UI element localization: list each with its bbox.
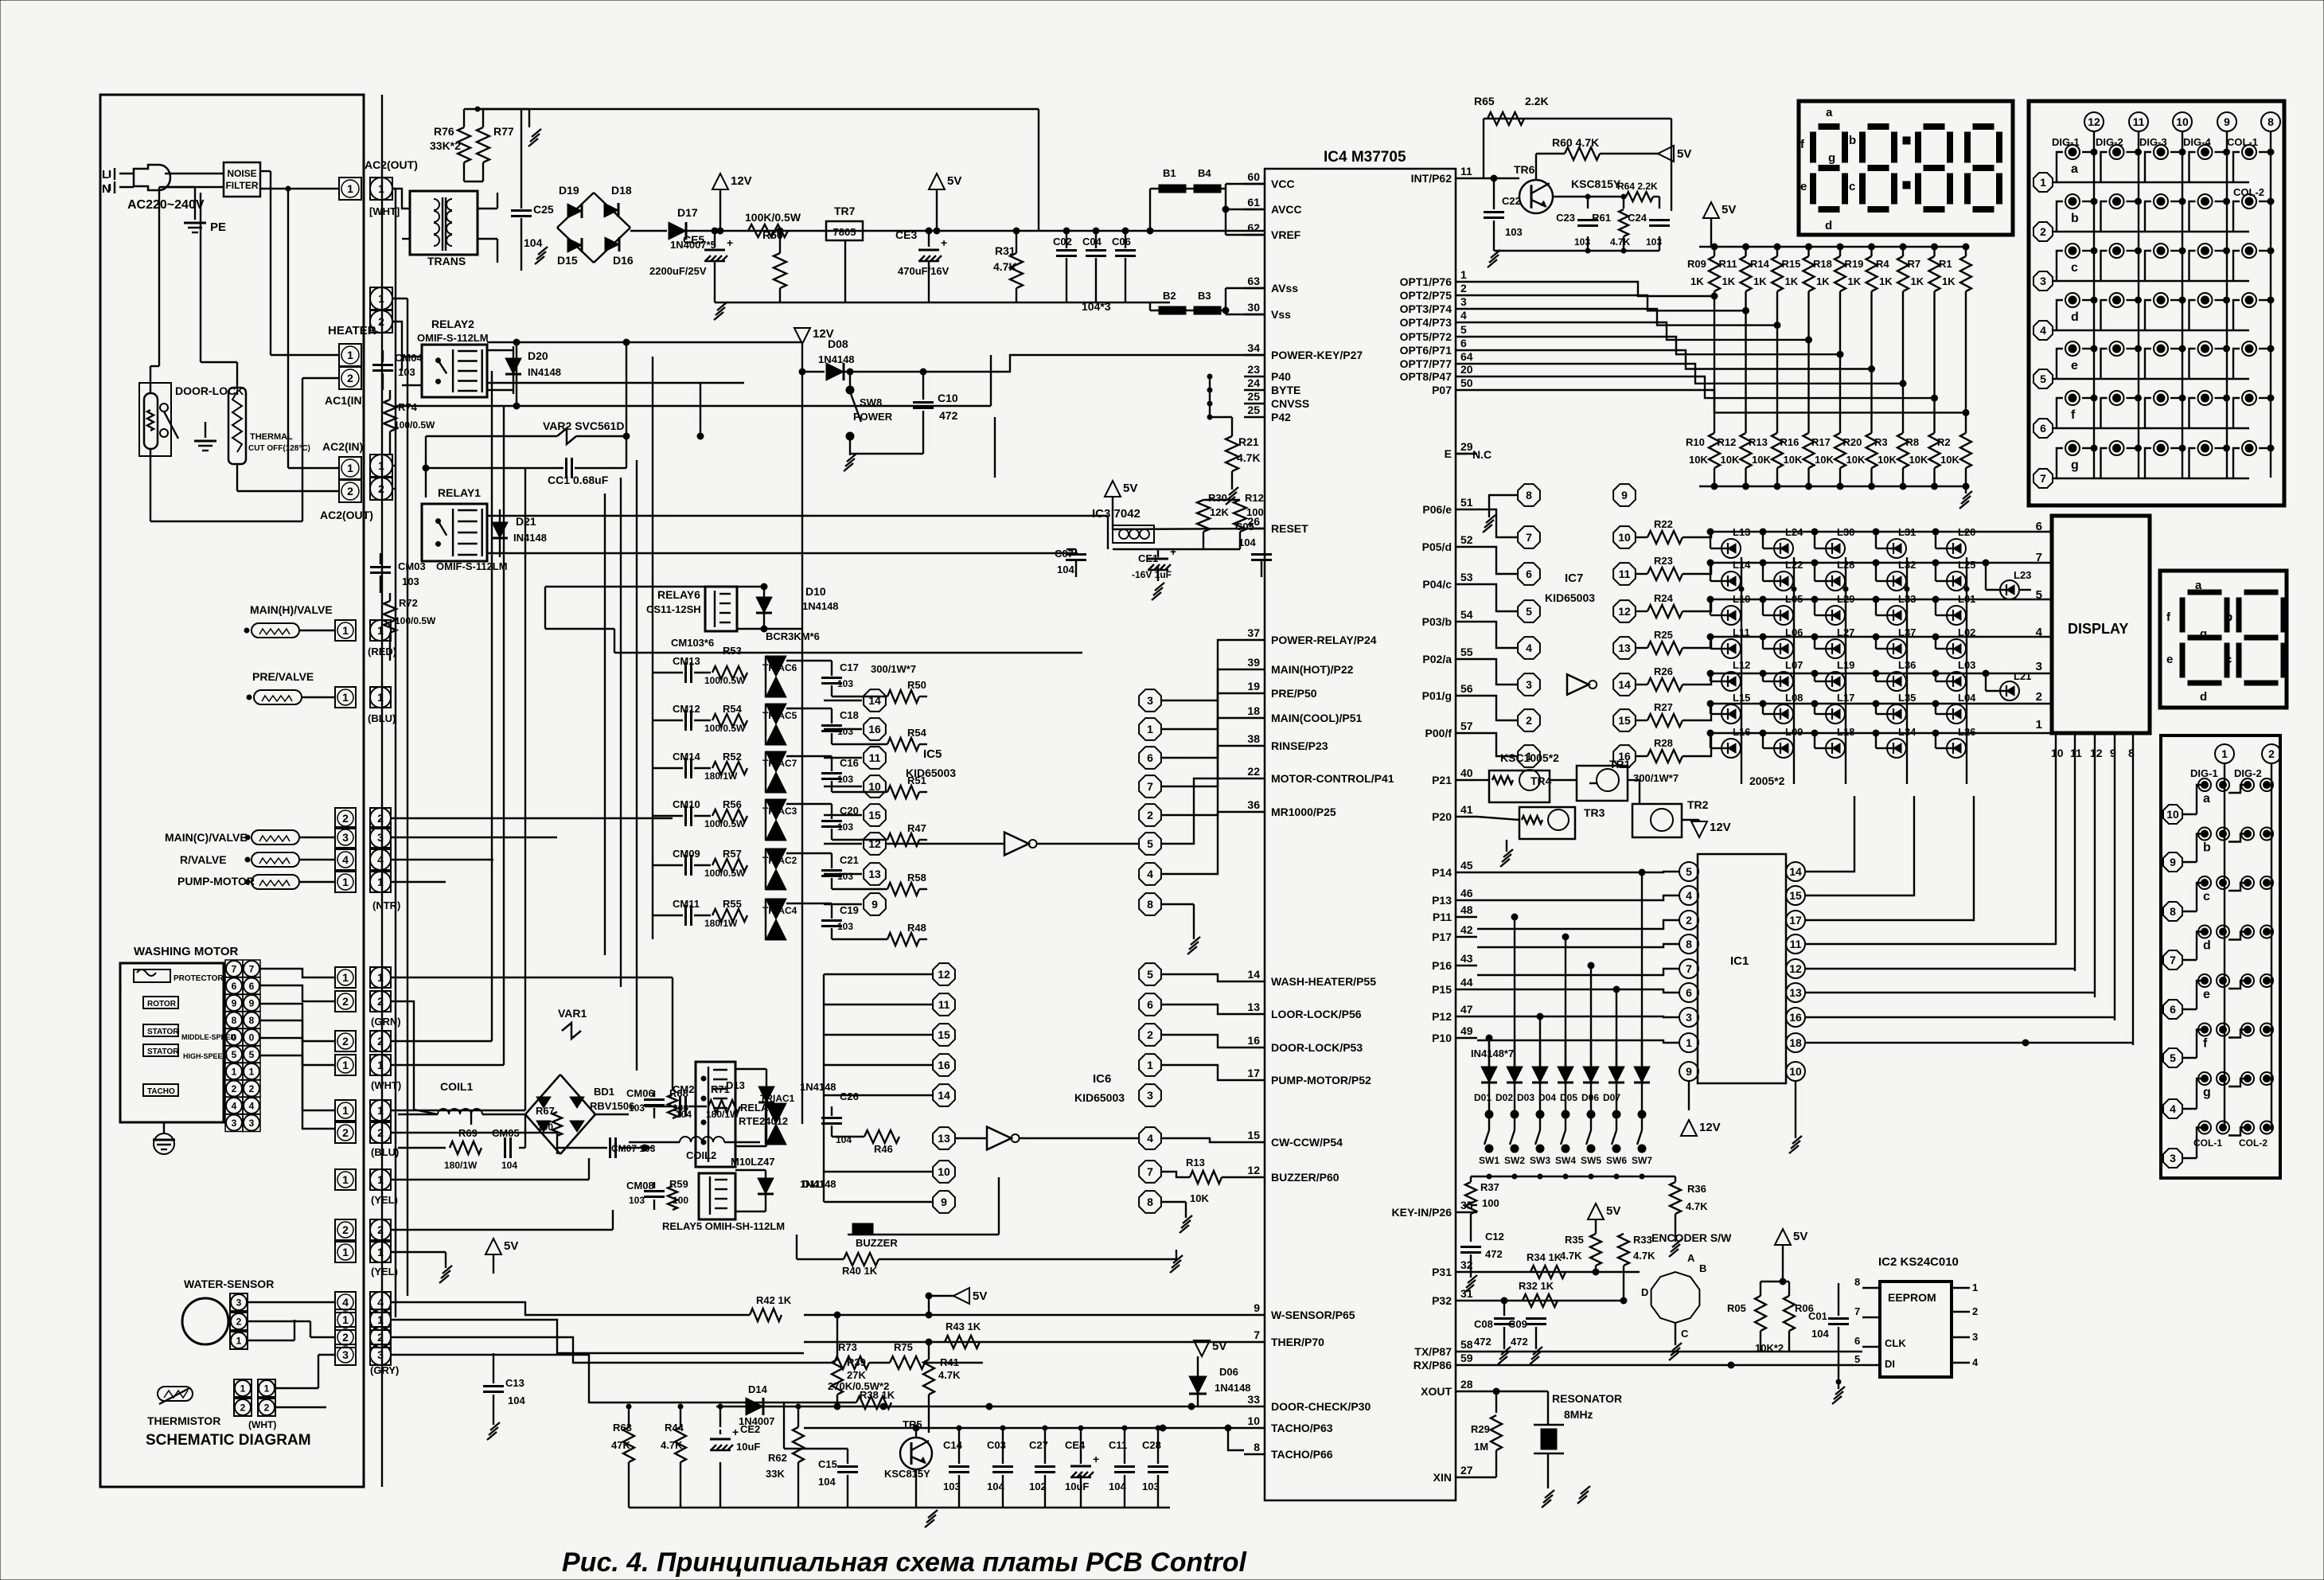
svg-text:2: 2 bbox=[342, 1126, 349, 1139]
svg-text:6: 6 bbox=[1460, 337, 1467, 349]
svg-text:R7: R7 bbox=[1908, 258, 1921, 270]
svg-text:15: 15 bbox=[1247, 1129, 1260, 1141]
svg-text:(GRN): (GRN) bbox=[371, 1016, 401, 1028]
svg-text:CE4: CE4 bbox=[1065, 1439, 1086, 1451]
svg-text:P42: P42 bbox=[1271, 411, 1291, 423]
svg-text:16: 16 bbox=[868, 723, 881, 735]
svg-text:100: 100 bbox=[1246, 506, 1264, 518]
svg-text:DOOR-LOCK/P53: DOOR-LOCK/P53 bbox=[1271, 1041, 1363, 1054]
svg-text:R38 1K: R38 1K bbox=[860, 1389, 895, 1401]
svg-text:D16: D16 bbox=[613, 254, 634, 267]
svg-text:11: 11 bbox=[938, 998, 950, 1011]
svg-text:472: 472 bbox=[939, 409, 958, 422]
svg-text:12: 12 bbox=[868, 837, 881, 850]
svg-text:4: 4 bbox=[2040, 324, 2046, 337]
svg-text:N.C: N.C bbox=[1472, 448, 1491, 461]
svg-text:43: 43 bbox=[1460, 952, 1473, 965]
svg-text:63: 63 bbox=[1247, 275, 1260, 287]
svg-text:C08: C08 bbox=[1474, 1318, 1493, 1330]
svg-text:P11: P11 bbox=[1433, 911, 1452, 923]
svg-text:2: 2 bbox=[1972, 1305, 1978, 1317]
svg-text:R3: R3 bbox=[1874, 436, 1888, 448]
svg-text:STATOR: STATOR bbox=[147, 1047, 179, 1056]
svg-text:AC2(IN): AC2(IN) bbox=[322, 440, 363, 453]
svg-text:4: 4 bbox=[249, 1100, 255, 1111]
svg-text:D06: D06 bbox=[1219, 1366, 1238, 1378]
svg-text:WASH-HEATER/P55: WASH-HEATER/P55 bbox=[1271, 975, 1376, 988]
svg-text:MAIN(COOL)/P51: MAIN(COOL)/P51 bbox=[1271, 712, 1363, 724]
svg-text:P15: P15 bbox=[1432, 983, 1452, 996]
svg-text:7: 7 bbox=[249, 963, 255, 974]
svg-text:DOOR-LOCK: DOOR-LOCK bbox=[175, 384, 244, 397]
svg-text:C04: C04 bbox=[1082, 236, 1102, 248]
svg-text:15: 15 bbox=[938, 1028, 950, 1041]
svg-text:62: 62 bbox=[1247, 221, 1260, 234]
svg-text:CE5: CE5 bbox=[683, 233, 704, 246]
svg-text:3: 3 bbox=[1972, 1331, 1978, 1343]
svg-text:57: 57 bbox=[1460, 720, 1473, 732]
svg-text:9: 9 bbox=[2170, 856, 2176, 868]
svg-text:IC1: IC1 bbox=[1730, 954, 1749, 968]
svg-text:L30: L30 bbox=[1837, 526, 1854, 538]
svg-text:11: 11 bbox=[1790, 938, 1802, 950]
svg-text:(WHT): (WHT) bbox=[248, 1419, 276, 1430]
svg-text:104: 104 bbox=[987, 1481, 1004, 1492]
svg-text:103: 103 bbox=[837, 678, 853, 689]
svg-text:1K: 1K bbox=[1942, 275, 1956, 287]
svg-text:8: 8 bbox=[2170, 905, 2176, 918]
svg-text:c: c bbox=[2203, 890, 2210, 903]
svg-text:OPT6/P71: OPT6/P71 bbox=[1400, 344, 1452, 357]
svg-text:ROTOR: ROTOR bbox=[147, 1000, 177, 1008]
svg-text:13: 13 bbox=[868, 868, 881, 880]
svg-text:BUZZER: BUZZER bbox=[856, 1237, 898, 1249]
svg-text:C: C bbox=[1681, 1328, 1689, 1340]
svg-text:D13: D13 bbox=[726, 1079, 745, 1091]
svg-text:46: 46 bbox=[1460, 887, 1473, 899]
svg-text:R60 4.7K: R60 4.7K bbox=[1552, 136, 1599, 149]
svg-text:5: 5 bbox=[249, 1049, 255, 1060]
svg-text:CLK: CLK bbox=[1885, 1337, 1906, 1349]
svg-text:W-SENSOR/P65: W-SENSOR/P65 bbox=[1271, 1309, 1355, 1321]
svg-text:1N4148: 1N4148 bbox=[800, 1178, 836, 1190]
svg-text:C12: C12 bbox=[1485, 1231, 1504, 1243]
svg-text:KSC1005*2: KSC1005*2 bbox=[1500, 751, 1559, 764]
svg-text:1: 1 bbox=[378, 459, 384, 472]
svg-text:R46: R46 bbox=[874, 1143, 893, 1155]
svg-text:R21: R21 bbox=[1238, 435, 1259, 448]
svg-text:CM08: CM08 bbox=[626, 1180, 654, 1192]
svg-text:6: 6 bbox=[1526, 568, 1532, 580]
svg-text:1: 1 bbox=[377, 1246, 384, 1258]
svg-text:472: 472 bbox=[1511, 1336, 1528, 1348]
svg-text:R14: R14 bbox=[1750, 258, 1770, 270]
svg-text:10K: 10K bbox=[1846, 454, 1866, 466]
svg-text:C28: C28 bbox=[1142, 1439, 1161, 1451]
svg-text:8: 8 bbox=[1147, 1196, 1153, 1208]
svg-text:P31: P31 bbox=[1432, 1266, 1452, 1278]
svg-text:14: 14 bbox=[938, 1089, 950, 1102]
svg-text:VAR1: VAR1 bbox=[558, 1007, 587, 1020]
svg-text:33K: 33K bbox=[766, 1468, 785, 1480]
svg-text:a: a bbox=[2071, 162, 2078, 176]
svg-text:14: 14 bbox=[868, 694, 881, 707]
svg-text:P40: P40 bbox=[1271, 370, 1291, 383]
svg-text:c: c bbox=[2225, 653, 2232, 666]
svg-text:PRE/P50: PRE/P50 bbox=[1271, 687, 1317, 700]
svg-text:5: 5 bbox=[1147, 837, 1153, 850]
svg-text:IC3 7042: IC3 7042 bbox=[1092, 507, 1141, 521]
svg-text:DOOR-CHECK/P30: DOOR-CHECK/P30 bbox=[1271, 1400, 1371, 1413]
svg-text:C03: C03 bbox=[987, 1439, 1006, 1451]
svg-text:(BLU): (BLU) bbox=[371, 1146, 399, 1158]
svg-text:12: 12 bbox=[1247, 1164, 1260, 1176]
svg-text:3: 3 bbox=[342, 1348, 349, 1361]
svg-text:8: 8 bbox=[1686, 938, 1692, 950]
svg-text:14: 14 bbox=[1247, 968, 1260, 981]
svg-text:9: 9 bbox=[1254, 1301, 1260, 1314]
svg-text:2: 2 bbox=[1686, 914, 1692, 927]
svg-text:(WHT): (WHT) bbox=[371, 1079, 401, 1091]
svg-text:b: b bbox=[1849, 134, 1856, 147]
svg-text:CE3: CE3 bbox=[895, 228, 917, 241]
svg-text:2: 2 bbox=[1147, 1028, 1153, 1041]
svg-text:P02/a: P02/a bbox=[1422, 653, 1452, 665]
svg-text:33: 33 bbox=[1247, 1393, 1260, 1406]
svg-text:47K: 47K bbox=[611, 1439, 630, 1451]
svg-text:3: 3 bbox=[2036, 660, 2042, 673]
svg-text:OPT4/P73: OPT4/P73 bbox=[1400, 316, 1452, 329]
svg-text:THERMISTOR: THERMISTOR bbox=[147, 1414, 220, 1427]
svg-text:HEATER: HEATER bbox=[328, 324, 376, 337]
svg-text:b: b bbox=[2225, 611, 2232, 624]
svg-text:g: g bbox=[2071, 458, 2079, 472]
svg-text:R47: R47 bbox=[907, 822, 926, 834]
svg-text:12: 12 bbox=[1618, 605, 1631, 618]
svg-text:39: 39 bbox=[1247, 656, 1260, 669]
svg-text:TR3: TR3 bbox=[1584, 806, 1605, 819]
svg-text:R22: R22 bbox=[1654, 518, 1673, 530]
svg-text:2: 2 bbox=[249, 1083, 255, 1094]
svg-text:RTE24012: RTE24012 bbox=[739, 1115, 788, 1127]
svg-text:L31: L31 bbox=[1898, 526, 1916, 538]
svg-text:103: 103 bbox=[943, 1481, 961, 1492]
svg-text:CM03: CM03 bbox=[398, 560, 426, 572]
svg-text:5: 5 bbox=[1686, 865, 1692, 878]
svg-text:RELAY2: RELAY2 bbox=[431, 318, 474, 330]
svg-text:EEPROM: EEPROM bbox=[1888, 1291, 1936, 1304]
svg-text:1: 1 bbox=[264, 1383, 270, 1394]
svg-text:R12: R12 bbox=[1245, 492, 1264, 504]
svg-text:R54: R54 bbox=[907, 727, 927, 739]
svg-text:103: 103 bbox=[1505, 226, 1523, 238]
svg-text:R35: R35 bbox=[1565, 1234, 1584, 1246]
svg-text:2: 2 bbox=[2040, 225, 2046, 238]
svg-text:KID65003: KID65003 bbox=[906, 767, 956, 779]
svg-text:CM103*6: CM103*6 bbox=[671, 637, 714, 649]
svg-text:P32: P32 bbox=[1432, 1294, 1452, 1307]
svg-text:5V: 5V bbox=[973, 1289, 987, 1303]
svg-text:THERMAL: THERMAL bbox=[250, 432, 293, 442]
svg-text:R64 2.2K: R64 2.2K bbox=[1617, 181, 1658, 192]
svg-text:R50: R50 bbox=[907, 679, 926, 691]
svg-text:R23: R23 bbox=[1654, 555, 1673, 567]
svg-text:10: 10 bbox=[2176, 115, 2189, 128]
svg-text:0: 0 bbox=[249, 1032, 255, 1043]
svg-text:TR2: TR2 bbox=[1687, 798, 1709, 811]
svg-text:R43 1K: R43 1K bbox=[946, 1321, 981, 1332]
svg-text:103: 103 bbox=[1142, 1481, 1160, 1492]
svg-text:1: 1 bbox=[377, 624, 384, 637]
svg-text:g: g bbox=[2203, 1086, 2211, 1099]
svg-text:4: 4 bbox=[1526, 642, 1532, 654]
svg-text:2: 2 bbox=[1147, 809, 1153, 821]
svg-text:29: 29 bbox=[1460, 440, 1473, 453]
svg-text:R36: R36 bbox=[1687, 1183, 1706, 1195]
svg-text:IC2 KS24C010: IC2 KS24C010 bbox=[1878, 1255, 1959, 1269]
svg-text:RESONATOR: RESONATOR bbox=[1552, 1392, 1622, 1405]
svg-text:SCHEMATIC DIAGRAM: SCHEMATIC DIAGRAM bbox=[146, 1432, 311, 1449]
svg-text:SW4: SW4 bbox=[1555, 1155, 1576, 1166]
svg-text:R11: R11 bbox=[1719, 258, 1737, 270]
svg-text:D17: D17 bbox=[677, 206, 698, 219]
svg-text:2200uF/25V: 2200uF/25V bbox=[649, 265, 707, 277]
svg-text:P00/f: P00/f bbox=[1425, 727, 1452, 739]
svg-text:17: 17 bbox=[1247, 1067, 1260, 1079]
svg-text:R10: R10 bbox=[1686, 436, 1705, 448]
svg-text:6: 6 bbox=[1147, 751, 1153, 764]
svg-text:12V: 12V bbox=[1710, 821, 1731, 834]
svg-text:3: 3 bbox=[1686, 1011, 1692, 1024]
svg-text:P05/d: P05/d bbox=[1422, 540, 1452, 553]
svg-text:R26: R26 bbox=[1654, 665, 1673, 677]
svg-text:C09: C09 bbox=[1508, 1318, 1527, 1330]
svg-text:IN4148*7: IN4148*7 bbox=[1471, 1047, 1514, 1059]
svg-text:AVss: AVss bbox=[1271, 282, 1298, 295]
svg-text:5: 5 bbox=[2036, 588, 2042, 602]
svg-text:1K: 1K bbox=[1911, 275, 1924, 287]
svg-text:1: 1 bbox=[232, 1066, 237, 1077]
svg-text:3: 3 bbox=[377, 831, 384, 844]
svg-text:R34 1K: R34 1K bbox=[1527, 1251, 1562, 1263]
svg-text:SW7: SW7 bbox=[1632, 1155, 1652, 1166]
svg-text:+: + bbox=[732, 1426, 739, 1438]
svg-text:+: + bbox=[1170, 545, 1176, 558]
svg-text:2: 2 bbox=[377, 1331, 384, 1344]
svg-text:2: 2 bbox=[264, 1402, 270, 1413]
svg-text:R1: R1 bbox=[1939, 258, 1952, 270]
svg-text:COIL2: COIL2 bbox=[686, 1149, 716, 1161]
svg-text:OPT1/P76: OPT1/P76 bbox=[1400, 275, 1452, 288]
svg-text:DIG-4: DIG-4 bbox=[2183, 136, 2211, 148]
svg-text:6: 6 bbox=[249, 981, 255, 992]
svg-text:R09: R09 bbox=[1687, 258, 1706, 270]
svg-text:2: 2 bbox=[377, 1035, 384, 1047]
svg-text:7: 7 bbox=[1686, 962, 1692, 975]
svg-text:D05: D05 bbox=[1560, 1092, 1577, 1103]
svg-text:1: 1 bbox=[342, 1246, 349, 1258]
svg-text:+: + bbox=[1093, 1453, 1099, 1465]
svg-text:10K: 10K bbox=[1940, 454, 1959, 466]
svg-text:D02: D02 bbox=[1495, 1092, 1513, 1103]
svg-text:104: 104 bbox=[1057, 564, 1074, 575]
svg-text:AC2(OUT): AC2(OUT) bbox=[365, 158, 418, 171]
svg-text:d: d bbox=[2203, 939, 2211, 953]
svg-text:50: 50 bbox=[1460, 376, 1473, 389]
svg-text:100: 100 bbox=[1482, 1197, 1499, 1209]
svg-text:b: b bbox=[2203, 841, 2211, 855]
svg-text:12V: 12V bbox=[731, 174, 752, 188]
svg-text:4: 4 bbox=[1972, 1356, 1979, 1368]
svg-text:P20: P20 bbox=[1432, 810, 1452, 823]
svg-text:4.7K: 4.7K bbox=[1610, 236, 1631, 248]
svg-text:R24: R24 bbox=[1654, 592, 1674, 604]
svg-text:R19: R19 bbox=[1845, 258, 1864, 270]
svg-text:R/VALVE: R/VALVE bbox=[180, 853, 227, 866]
svg-text:8: 8 bbox=[249, 1015, 255, 1026]
svg-text:7: 7 bbox=[1147, 1165, 1153, 1178]
svg-text:1K: 1K bbox=[1879, 275, 1893, 287]
svg-text:e: e bbox=[2071, 359, 2078, 373]
svg-text:R58: R58 bbox=[907, 872, 926, 884]
svg-text:11: 11 bbox=[869, 751, 881, 764]
svg-text:P16: P16 bbox=[1432, 959, 1452, 972]
svg-text:KID65003: KID65003 bbox=[1074, 1091, 1125, 1104]
svg-text:P03/b: P03/b bbox=[1422, 615, 1452, 628]
svg-text:5: 5 bbox=[2040, 373, 2046, 385]
svg-text:NOISE: NOISE bbox=[227, 168, 256, 179]
svg-text:5: 5 bbox=[232, 1049, 237, 1060]
svg-text:1: 1 bbox=[342, 1059, 349, 1071]
svg-text:Vss: Vss bbox=[1271, 308, 1291, 321]
svg-text:FILTER: FILTER bbox=[225, 180, 258, 191]
svg-text:STATOR: STATOR bbox=[147, 1028, 179, 1036]
svg-text:52: 52 bbox=[1460, 533, 1473, 546]
svg-text:RINSE/P23: RINSE/P23 bbox=[1271, 739, 1328, 752]
svg-text:MAIN(H)/VALVE: MAIN(H)/VALVE bbox=[250, 603, 333, 616]
svg-text:RESET: RESET bbox=[1271, 522, 1308, 535]
svg-text:1: 1 bbox=[2036, 718, 2042, 731]
svg-text:+: + bbox=[727, 236, 733, 249]
svg-text:1: 1 bbox=[249, 1066, 255, 1077]
svg-text:1: 1 bbox=[378, 182, 384, 195]
svg-text:B2: B2 bbox=[1163, 290, 1176, 302]
svg-text:TRANS: TRANS bbox=[427, 255, 466, 267]
svg-text:5V: 5V bbox=[504, 1239, 518, 1253]
svg-text:R75: R75 bbox=[894, 1341, 913, 1353]
svg-text:2: 2 bbox=[1460, 282, 1467, 295]
svg-text:C16: C16 bbox=[840, 757, 859, 769]
svg-text:D10: D10 bbox=[805, 585, 826, 598]
svg-text:C15: C15 bbox=[818, 1458, 837, 1470]
svg-text:R29: R29 bbox=[1471, 1423, 1490, 1435]
svg-text:47: 47 bbox=[1460, 1003, 1473, 1016]
svg-text:R67: R67 bbox=[536, 1105, 555, 1117]
svg-text:C22: C22 bbox=[1502, 195, 1521, 207]
svg-text:CC1 0.68uF: CC1 0.68uF bbox=[548, 474, 609, 486]
svg-text:18: 18 bbox=[1789, 1036, 1802, 1049]
svg-text:SW5: SW5 bbox=[1581, 1155, 1601, 1166]
svg-text:AC1(IN): AC1(IN) bbox=[325, 394, 365, 407]
svg-text:8: 8 bbox=[1254, 1441, 1260, 1453]
svg-text:61: 61 bbox=[1247, 196, 1260, 209]
svg-text:1: 1 bbox=[347, 462, 353, 474]
svg-text:10K: 10K bbox=[1784, 454, 1803, 466]
svg-text:3: 3 bbox=[1147, 1089, 1153, 1102]
svg-text:PUMP-MOTOR/P52: PUMP-MOTOR/P52 bbox=[1271, 1074, 1371, 1086]
svg-text:49: 49 bbox=[1460, 1024, 1473, 1037]
svg-text:R18: R18 bbox=[1813, 258, 1832, 270]
svg-text:IC5: IC5 bbox=[923, 747, 942, 761]
svg-text:6: 6 bbox=[232, 981, 237, 992]
svg-text:5: 5 bbox=[2170, 1051, 2176, 1064]
svg-text:103: 103 bbox=[837, 921, 853, 932]
svg-text:0: 0 bbox=[232, 1032, 237, 1043]
svg-text:LOOR-LOCK/P56: LOOR-LOCK/P56 bbox=[1271, 1008, 1362, 1020]
svg-text:12: 12 bbox=[2090, 747, 2103, 759]
svg-text:RBV1506: RBV1506 bbox=[590, 1100, 634, 1112]
svg-text:5: 5 bbox=[1526, 605, 1532, 618]
svg-text:2: 2 bbox=[342, 1331, 349, 1344]
svg-text:L: L bbox=[102, 168, 109, 181]
svg-text:d: d bbox=[2071, 310, 2079, 324]
svg-text:6: 6 bbox=[2040, 422, 2046, 435]
svg-text:54: 54 bbox=[1460, 608, 1473, 621]
svg-text:D19: D19 bbox=[559, 184, 579, 197]
svg-text:R37: R37 bbox=[1480, 1181, 1499, 1193]
svg-text:P12: P12 bbox=[1432, 1010, 1452, 1023]
svg-text:38: 38 bbox=[1247, 732, 1260, 745]
svg-text:b: b bbox=[2071, 212, 2079, 225]
svg-text:d: d bbox=[2200, 690, 2207, 704]
svg-text:6: 6 bbox=[1854, 1335, 1860, 1347]
svg-text:PUMP-MOTOR: PUMP-MOTOR bbox=[177, 875, 255, 888]
svg-text:ENCODER S/W: ENCODER S/W bbox=[1651, 1231, 1732, 1244]
svg-text:RELAY5 OMIH-SH-112LM: RELAY5 OMIH-SH-112LM bbox=[662, 1220, 785, 1232]
svg-text:2: 2 bbox=[347, 372, 353, 384]
svg-text:100/0.5W: 100/0.5W bbox=[704, 675, 746, 686]
svg-text:CM06: CM06 bbox=[626, 1087, 654, 1099]
svg-text:9: 9 bbox=[1686, 1065, 1692, 1078]
svg-text:f: f bbox=[2203, 1037, 2208, 1051]
svg-text:10K: 10K bbox=[1721, 454, 1740, 466]
svg-text:SW1: SW1 bbox=[1479, 1155, 1499, 1166]
svg-text:BYTE: BYTE bbox=[1271, 384, 1300, 396]
svg-text:4.7K: 4.7K bbox=[661, 1439, 683, 1451]
svg-text:2: 2 bbox=[2268, 747, 2275, 760]
svg-text:103: 103 bbox=[1646, 236, 1662, 248]
svg-text:C19: C19 bbox=[840, 904, 859, 916]
svg-text:2: 2 bbox=[377, 812, 384, 825]
svg-text:10K: 10K bbox=[1190, 1192, 1209, 1204]
svg-text:103: 103 bbox=[837, 726, 853, 737]
svg-text:WATER-SENSOR: WATER-SENSOR bbox=[184, 1278, 274, 1290]
svg-text:MIDDLE-SPEED: MIDDLE-SPEED bbox=[181, 1033, 236, 1041]
svg-text:1N4148: 1N4148 bbox=[802, 600, 839, 612]
svg-text:R48: R48 bbox=[907, 922, 926, 934]
svg-text:4: 4 bbox=[377, 1296, 384, 1309]
svg-text:C21: C21 bbox=[840, 854, 859, 866]
svg-text:104: 104 bbox=[818, 1476, 836, 1488]
svg-text:16: 16 bbox=[1247, 1034, 1260, 1047]
svg-text:SW3: SW3 bbox=[1530, 1155, 1550, 1166]
svg-text:8: 8 bbox=[1147, 898, 1153, 911]
svg-text:4: 4 bbox=[2036, 626, 2043, 639]
svg-text:TR6: TR6 bbox=[1514, 163, 1535, 176]
svg-text:2: 2 bbox=[378, 482, 384, 495]
svg-text:L23: L23 bbox=[2014, 569, 2031, 581]
svg-text:1: 1 bbox=[347, 182, 353, 195]
